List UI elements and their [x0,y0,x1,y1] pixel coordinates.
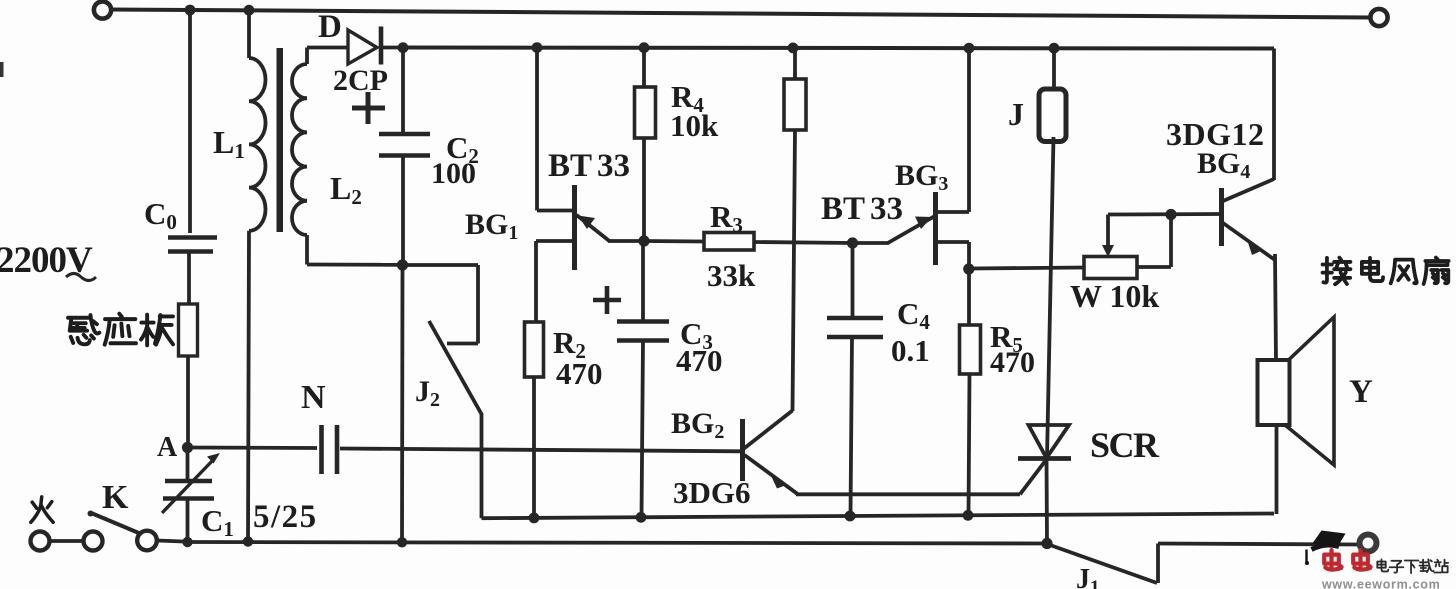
transistor BG3 base2 lead [937,210,969,214]
watermark site name glyphs [1377,559,1448,573]
svg-text:R3: R3 [710,199,743,237]
WATERMARK [1305,531,1448,589]
svg-text:W 10k: W 10k [1070,278,1159,314]
capacitor C2 [401,48,405,135]
inductor L1 [247,10,251,58]
svg-text:www.eeworm.com: www.eeworm.com [1321,578,1440,589]
svg-text:100: 100 [431,157,476,190]
resistor R3 [644,239,704,243]
terminal top-left [94,1,111,18]
svg-text:SCR: SCR [1090,425,1160,465]
transistor BG2 collector [744,411,793,449]
tilde under V [66,274,96,281]
node dot top rail x249 [244,5,255,16]
wire switched ground rail [482,514,1275,519]
node dot rail x1054 [1049,43,1060,54]
transistor BG4 3DG12 bar [1219,188,1224,246]
svg-text:0.1: 0.1 [891,333,930,368]
svg-text:Y: Y [1349,374,1373,410]
thyristor SCR gate [1020,460,1046,494]
node dot rail x644 [639,42,650,53]
transistor BG3 bar [933,192,938,265]
svg-text:L1: L1 [213,124,245,163]
svg-text:A: A [157,432,178,463]
RIGHT SECTION [969,48,1377,583]
node dot rail x850 [845,511,856,522]
scan streak left edge [0,62,4,77]
svg-text:470: 470 [676,343,723,378]
sensor plate box (gan ying ban) [179,304,198,356]
svg-text:C0: C0 [144,196,177,234]
capacitor C0 [168,235,217,239]
wire L2 top to diode [307,46,349,50]
svg-text:J: J [1008,96,1024,132]
label dian (fan connection) [1362,258,1383,281]
svg-text:3DG6: 3DG6 [673,475,751,510]
plus sign under 2CP [352,106,385,111]
svg-text:J1: J1 [1076,564,1100,589]
transformer core [277,48,284,232]
svg-text:2CP: 2CP [333,64,388,97]
wire BG3 b1 to potentiometer [969,268,1084,269]
diode D 2CP [348,30,377,64]
svg-text:BT33: BT33 [821,191,903,227]
node dot rail x968 [963,510,974,521]
switch K [31,532,50,551]
terminal output circle [1360,535,1377,552]
potentiometer W 10k [1084,257,1137,279]
svg-text:C4: C4 [897,296,930,334]
svg-text:L2: L2 [330,170,362,209]
transistor BG2 3DG6 bar [740,419,745,481]
svg-text:10k: 10k [670,108,719,143]
node dot rail x641 [636,512,647,523]
node dot L1 lower rail [243,536,253,546]
label ban (sensor plate) [141,315,173,346]
transistor BG3 BT33 emitter [853,241,889,245]
node dot wiper junction [1165,209,1176,220]
wire rectified rail [403,48,1274,49]
svg-text:BG3: BG3 [895,159,948,195]
plus sign C3 [593,298,621,303]
label jie (fan connection) [1323,258,1351,285]
wire C0 to plate [187,252,191,305]
node dot lower rail x402 [397,537,407,547]
wire A to C1 [186,448,190,482]
wire wiper to BG4 base [1108,212,1220,216]
svg-text:470: 470 [556,356,603,391]
svg-text:BT33: BT33 [548,148,630,184]
svg-text:BG4: BG4 [1197,147,1250,183]
label feng (fan connection) [1391,260,1417,284]
node dot top rail x190 [185,5,196,16]
node dot rail x793 [788,43,799,54]
capacitor C4 [851,243,855,318]
node dot rail x534 [529,513,540,524]
watermark chong chong red worms [1324,550,1370,569]
transistor BG1 BT33 base2 lead [535,48,539,211]
wire bottom rail [188,542,1048,544]
svg-text:J2: J2 [415,375,440,411]
transistor BG2 emitter [745,455,799,494]
node dot R3 right junction [847,237,858,248]
MIDDLE SECTION [525,48,1021,519]
wire plate to node A [186,356,190,448]
resistor R4 [642,48,646,87]
wire left branch down to C0 [188,10,192,233]
transistor BG1 bar [572,185,577,270]
svg-text:C1: C1 [201,503,234,541]
watermark cap icon [1312,531,1346,546]
relay coil J [1052,48,1056,90]
node dot K junction [182,537,192,547]
CHINESE LABELS (drawn strokes) [31,258,1449,523]
transistor BG1 emitter [577,215,611,242]
wire C1 to bottom rail [186,499,190,543]
transistor BG4 collector [1223,179,1274,201]
wire speaker return [1275,424,1279,514]
node dot BG1 emitter junction [638,235,649,246]
node dot BG3 b1 junction [963,263,974,274]
wire J1 to output terminal [1158,544,1360,545]
label gan (sensor plate) [68,315,99,344]
node dot J2 top [397,259,408,270]
capacitor C3 [641,241,645,322]
node dot bottom rail right [1041,538,1052,549]
node dot rail x537 [532,42,543,53]
relay contact J2 [403,263,479,267]
wire L1 bottom to lower rail [248,231,249,542]
svg-text:470: 470 [990,346,1035,379]
svg-text:N: N [301,379,326,416]
node dot rail x969 [964,43,975,54]
speaker Y [1258,360,1290,425]
label shan (fan connection) [1424,258,1449,284]
wire L2 bottom [305,235,309,265]
svg-text:33k: 33k [707,258,756,293]
terminal top-right [1370,9,1387,26]
svg-text:5/25: 5/25 [253,499,318,535]
transistor BG3 base1 lead [937,240,969,244]
label ying (sensor plate) [105,314,136,345]
node dot diode out [398,42,409,53]
resistor R5 [967,269,971,325]
variable capacitor C1 [165,479,212,483]
potentiometer wiper arrow [1106,215,1110,253]
wire C2/L2 node to lower rail [400,265,404,542]
transistor BG4 emitter [1223,223,1275,260]
svg-text:D: D [318,9,342,45]
capacitor N [188,446,318,450]
wire N to BG2 base [340,449,741,452]
relay contact J1 blade [1050,545,1157,583]
transistor BG1 base1 lead [536,239,573,243]
label huo (live wire) [31,497,53,522]
inductor L2 [305,48,309,65]
svg-text:K: K [102,479,129,516]
wire top rail [111,10,1371,18]
node A dot [182,442,193,453]
svg-text:BG2: BG2 [671,407,724,443]
resistor R2 [525,322,544,377]
resistor above BG2 collector [793,48,797,79]
thyristor SCR [1029,425,1070,458]
svg-text:BG1: BG1 [465,208,518,244]
